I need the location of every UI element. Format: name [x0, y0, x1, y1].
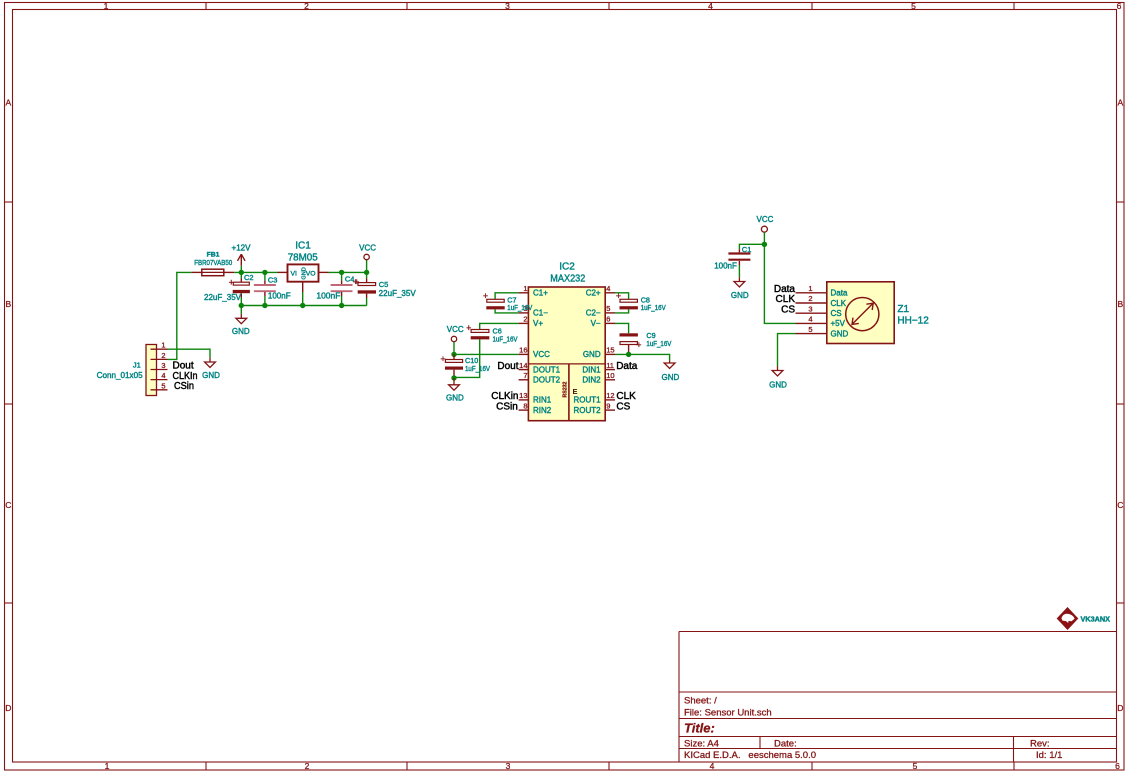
svg-text:FBR07VAB50: FBR07VAB50: [194, 258, 232, 267]
svg-text:100nF: 100nF: [316, 292, 340, 301]
svg-text:1: 1: [523, 284, 527, 293]
svg-text:8: 8: [523, 401, 527, 410]
svg-text:6: 6: [1117, 1, 1122, 11]
svg-text:3: 3: [506, 761, 511, 771]
title block texts: [684, 696, 1062, 762]
svg-text:100nF: 100nF: [268, 292, 291, 301]
svg-text:+5V: +5V: [831, 319, 846, 328]
wire J1 pin2 to FB1: [168, 272, 192, 359]
capacitor C2: [204, 272, 254, 305]
regulator IC1: [278, 241, 329, 306]
svg-text:3: 3: [808, 304, 812, 313]
junction C9/GND wire: [626, 352, 631, 357]
svg-text:C7: C7: [507, 296, 516, 305]
svg-text:22uF_35V: 22uF_35V: [204, 293, 242, 302]
svg-text:D: D: [1117, 703, 1123, 713]
junction VCC/C1: [762, 242, 767, 247]
svg-text:File: Sensor Unit.sch: File: Sensor Unit.sch: [684, 708, 772, 719]
svg-text:DIN1: DIN1: [582, 365, 601, 374]
svg-text:C2: C2: [244, 273, 254, 282]
svg-text:GND: GND: [831, 329, 849, 338]
svg-text:Title:: Title:: [684, 721, 715, 736]
svg-text:+: +: [616, 291, 621, 301]
connector J1: [97, 341, 168, 396]
VK3ANX logo: [1057, 607, 1110, 630]
svg-text:GND: GND: [446, 393, 464, 402]
svg-text:2: 2: [523, 315, 527, 324]
svg-text:2: 2: [304, 1, 309, 11]
svg-text:C3: C3: [268, 276, 278, 285]
svg-text:VCC: VCC: [757, 215, 774, 224]
IC2 left pin stubs: [519, 293, 529, 410]
svg-text:9: 9: [606, 401, 610, 410]
svg-text:15: 15: [606, 346, 614, 355]
svg-text:5: 5: [911, 1, 916, 11]
capacitor C3: [254, 272, 291, 305]
capacitor C1: [714, 244, 764, 277]
ground below C1: [731, 277, 749, 300]
svg-text:Conn_01x05: Conn_01x05: [97, 371, 144, 380]
svg-text:Sheet: /: Sheet: /: [684, 696, 717, 707]
svg-text:1: 1: [808, 284, 812, 293]
svg-text:GND: GND: [731, 291, 749, 300]
svg-text:MAX232: MAX232: [550, 273, 585, 284]
title block: [679, 632, 1117, 763]
svg-text:IC1: IC1: [295, 241, 311, 252]
sensor Z1 HH-12: [827, 282, 929, 344]
IC IC2 MAX232: [528, 261, 605, 420]
svg-text:C6: C6: [493, 326, 502, 335]
junction C10 bottom: [451, 375, 456, 380]
svg-text:CLK: CLK: [831, 299, 847, 308]
svg-text:RS232: RS232: [563, 382, 569, 398]
svg-text:C9: C9: [646, 331, 655, 340]
capacitor C9: [615, 323, 672, 354]
fuse FB1: [191, 252, 234, 276]
svg-text:+: +: [440, 354, 445, 364]
svg-text:4: 4: [808, 315, 812, 324]
wire FB1 to IC1: [234, 271, 277, 273]
svg-text:1uF_16V: 1uF_16V: [641, 305, 666, 312]
svg-text:1: 1: [105, 761, 110, 771]
svg-text:Z1: Z1: [897, 304, 909, 315]
svg-text:GND: GND: [662, 373, 680, 382]
wire VCC to IC2 pin16: [454, 353, 519, 355]
Z1 pins: [796, 293, 827, 334]
junction VCC/C10: [451, 352, 456, 357]
svg-text:Date:: Date:: [774, 739, 797, 750]
capacitor C6: [454, 323, 519, 378]
svg-text:+12V: +12V: [232, 243, 252, 252]
svg-text:CS: CS: [781, 304, 795, 315]
svg-text:3: 3: [505, 1, 510, 11]
svg-text:Data: Data: [831, 289, 848, 298]
svg-text:11: 11: [606, 361, 614, 370]
svg-text:Data: Data: [616, 361, 638, 372]
svg-text:B: B: [1117, 299, 1123, 309]
svg-text:V+: V+: [533, 319, 543, 328]
svg-text:A: A: [1117, 98, 1123, 108]
ground rail wire: [241, 305, 366, 307]
svg-text:12: 12: [606, 391, 614, 400]
wire HH-12 pin5 to GND: [778, 334, 796, 367]
svg-text:C1−: C1−: [533, 309, 548, 318]
capacitor C10: [440, 354, 490, 378]
junction C3 top: [262, 270, 267, 275]
IC2 pin names: [533, 289, 561, 415]
svg-text:100nF: 100nF: [714, 262, 737, 271]
svg-text:10: 10: [606, 371, 614, 380]
frame column ticks: [206, 3, 1014, 771]
power +12V: [232, 243, 252, 272]
svg-text:DOUT2: DOUT2: [533, 376, 561, 385]
svg-text:VK3ANX: VK3ANX: [1081, 615, 1111, 624]
svg-text:6: 6: [606, 315, 610, 324]
svg-text:2: 2: [808, 294, 812, 303]
svg-text:B: B: [5, 299, 11, 309]
rail junctions: [239, 303, 244, 308]
svg-text:2: 2: [161, 351, 165, 360]
capacitor C7: [483, 291, 533, 313]
svg-text:+: +: [636, 340, 641, 350]
svg-text:C: C: [1117, 500, 1123, 510]
junction at +12V/C2: [239, 270, 244, 275]
svg-text:DOUT1: DOUT1: [533, 365, 561, 374]
svg-text:Dout: Dout: [497, 361, 518, 372]
svg-text:GND: GND: [232, 327, 250, 336]
svg-text:C2−: C2−: [586, 309, 601, 318]
svg-text:GND: GND: [583, 350, 601, 359]
frame row ticks: [5, 202, 1125, 603]
svg-text:5: 5: [808, 325, 812, 334]
svg-text:IC2: IC2: [559, 261, 575, 272]
svg-text:VCC: VCC: [447, 325, 464, 334]
svg-text:5: 5: [161, 381, 165, 390]
svg-text:78M05: 78M05: [288, 252, 318, 263]
svg-text:1uF_16V: 1uF_16V: [507, 305, 532, 312]
svg-text:C5: C5: [379, 280, 389, 289]
svg-text:RIN1: RIN1: [533, 396, 552, 405]
svg-text:J1: J1: [133, 361, 141, 370]
ground at J1: [205, 358, 216, 368]
svg-text:1uF_16V: 1uF_16V: [493, 336, 518, 343]
svg-text:GND: GND: [769, 381, 787, 390]
power VCC at C5: [359, 243, 376, 272]
junction C4 top: [339, 270, 344, 275]
svg-text:C1: C1: [742, 245, 752, 254]
svg-text:CSin: CSin: [496, 401, 518, 412]
svg-text:4: 4: [710, 761, 715, 771]
svg-text:D: D: [5, 703, 11, 713]
svg-text:4: 4: [708, 1, 713, 11]
svg-text:RIN2: RIN2: [533, 406, 552, 415]
svg-text:A: A: [5, 98, 11, 108]
svg-text:VCC: VCC: [533, 350, 550, 359]
wire IC1 to VCC/C5: [329, 271, 367, 273]
svg-text:CS: CS: [616, 401, 630, 412]
svg-text:DIN2: DIN2: [582, 376, 601, 385]
svg-text:1uF_16V: 1uF_16V: [465, 366, 490, 373]
ground below rail: [232, 306, 250, 336]
svg-text:HH−12: HH−12: [897, 316, 929, 327]
svg-text:CSin: CSin: [174, 381, 194, 392]
svg-text:Rev:: Rev:: [1030, 739, 1050, 750]
frame row labels: [5, 98, 1123, 714]
svg-text:GND: GND: [301, 267, 307, 279]
ground right of IC2: [662, 360, 680, 382]
svg-text:4: 4: [606, 284, 610, 293]
svg-text:1: 1: [161, 341, 165, 350]
svg-text:E: E: [573, 387, 578, 396]
junction C5/VCC: [364, 270, 369, 275]
svg-text:VCC: VCC: [359, 243, 376, 252]
svg-text:GND: GND: [202, 371, 220, 380]
capacitor C4: [316, 272, 358, 305]
svg-text:4: 4: [161, 371, 165, 380]
svg-text:KICad E.D.A. eeschema 5.0.0: KICad E.D.A. eeschema 5.0.0: [684, 750, 816, 761]
svg-text:16: 16: [519, 346, 527, 355]
svg-text:C1+: C1+: [533, 289, 548, 298]
IC2 pin numbers: [519, 284, 527, 410]
svg-text:3: 3: [161, 361, 165, 370]
svg-text:ROUT1: ROUT1: [573, 396, 601, 405]
svg-text:+: +: [483, 291, 488, 301]
svg-text:5: 5: [606, 304, 610, 313]
power VCC at HH-12: [757, 215, 774, 244]
svg-text:2: 2: [305, 761, 310, 771]
wire IC2 pin15 to GND: [615, 354, 670, 360]
svg-text:5: 5: [913, 761, 918, 771]
svg-text:1: 1: [104, 1, 109, 11]
svg-text:+: +: [229, 277, 234, 287]
svg-text:6: 6: [1115, 761, 1120, 771]
svg-text:22uF_35V: 22uF_35V: [379, 289, 417, 298]
svg-text:+: +: [466, 323, 471, 333]
svg-text:C8: C8: [641, 296, 650, 305]
ground below C10: [446, 378, 464, 402]
power VCC at C10: [447, 325, 464, 354]
svg-text:C10: C10: [465, 356, 478, 365]
svg-text:+: +: [354, 277, 359, 287]
svg-text:ROUT2: ROUT2: [573, 406, 601, 415]
svg-text:VI: VI: [291, 270, 298, 277]
svg-text:13: 13: [519, 391, 527, 400]
wire J1 pin1 to GND: [168, 349, 211, 357]
wire VCC to HH-12 pin4: [764, 244, 795, 323]
svg-text:V−: V−: [591, 319, 601, 328]
svg-text:1uF_16V: 1uF_16V: [646, 341, 671, 348]
Z1 pin names: [831, 289, 849, 339]
svg-text:Id: 1/1: Id: 1/1: [1036, 750, 1062, 761]
svg-text:7: 7: [523, 371, 527, 380]
IC2 right pin stubs: [605, 293, 615, 410]
svg-text:CS: CS: [831, 309, 842, 318]
Z1 pin numbers: [808, 284, 812, 334]
svg-text:C: C: [5, 500, 11, 510]
svg-text:C2+: C2+: [586, 289, 601, 298]
capacitor C5: [354, 272, 416, 305]
svg-text:Size: A4: Size: A4: [684, 739, 719, 750]
capacitor C8: [615, 291, 666, 313]
svg-text:14: 14: [519, 361, 527, 370]
ground below HH-12: [769, 366, 787, 389]
